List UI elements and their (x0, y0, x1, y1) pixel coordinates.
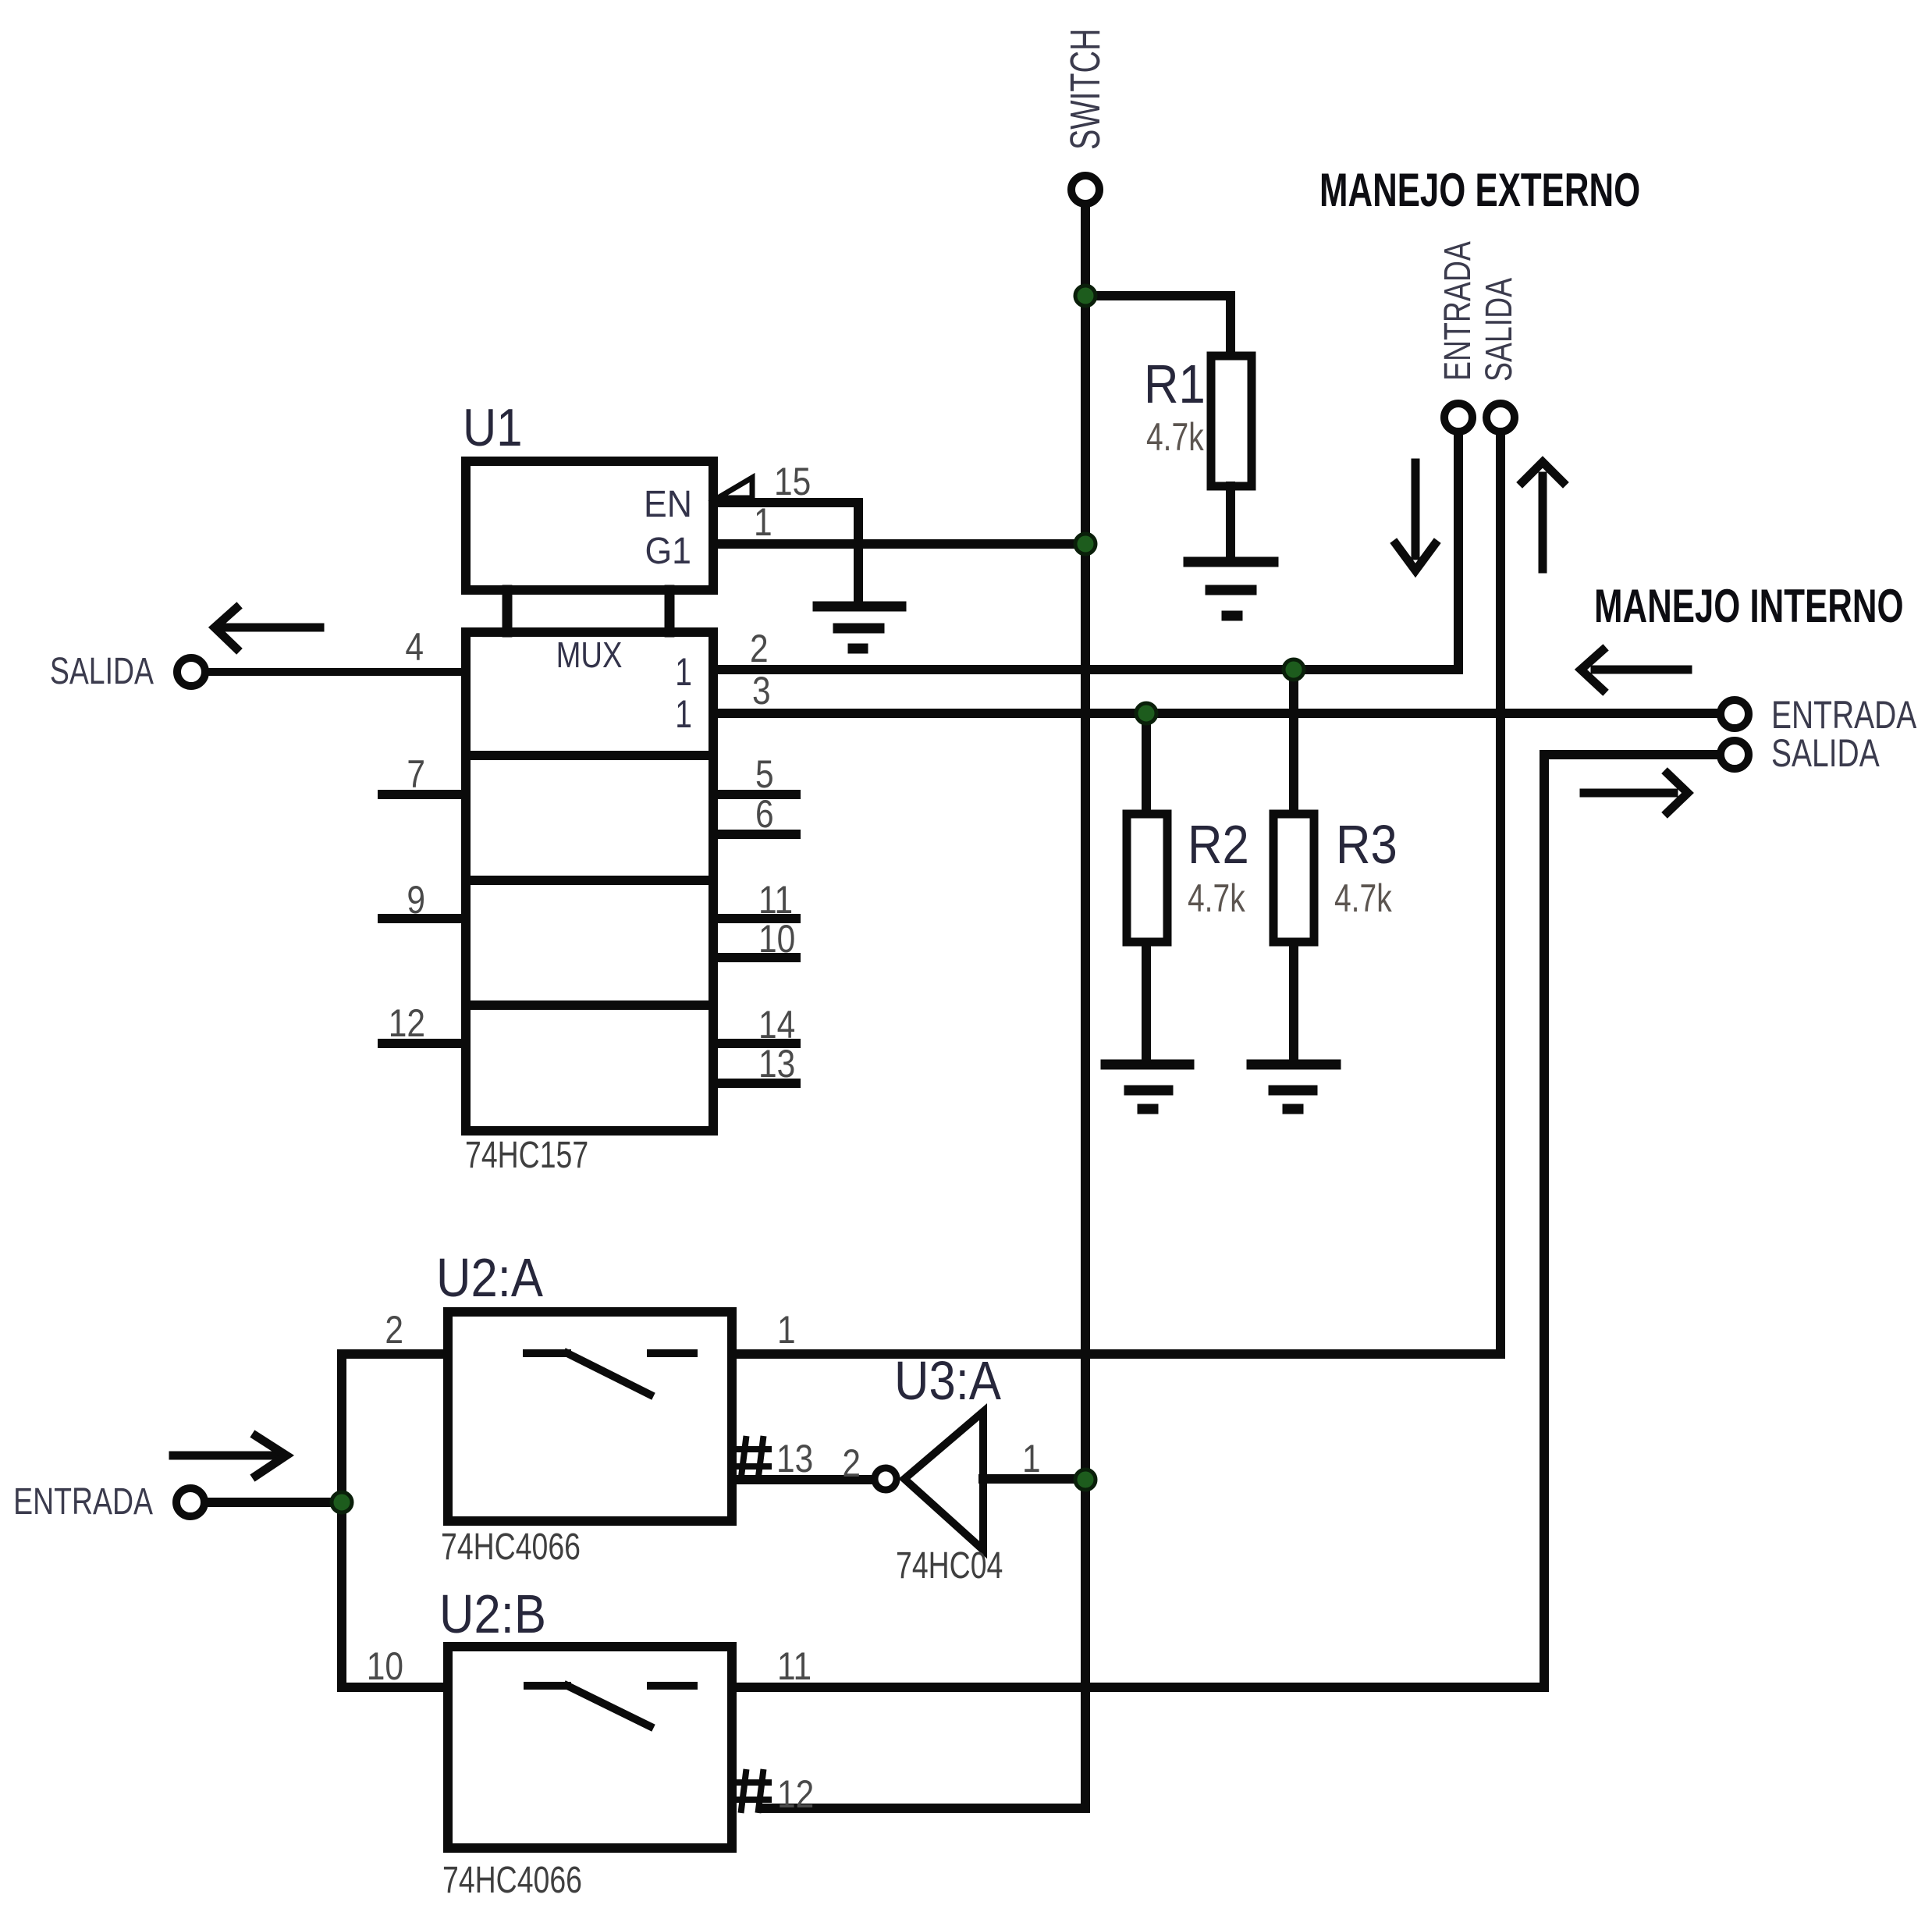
svg-text:4: 4 (405, 625, 424, 669)
U1 tab right (665, 590, 675, 632)
chip U1 EN/G1 control box (466, 461, 713, 590)
ground (EN pin15) (818, 606, 901, 649)
resistor R2 leads (1142, 713, 1151, 818)
svg-text:3: 3 (752, 669, 771, 713)
wire ENTRADA to junction (208, 1498, 342, 1507)
svg-text:U1: U1 (463, 397, 522, 457)
U2:A switch symbol (527, 1353, 694, 1395)
resistor R2 (1127, 814, 1167, 942)
node J4 pin3/R2 (1136, 703, 1156, 723)
U1 divider 2 (466, 876, 713, 885)
svg-text:2: 2 (750, 627, 769, 670)
inverter U3:A triangle (904, 1412, 983, 1550)
switch U2:B box (448, 1647, 732, 1848)
wire R1 bottom lead (1226, 486, 1235, 559)
terminal ENTRADA externo (1444, 403, 1472, 432)
svg-text:R3: R3 (1336, 813, 1398, 875)
arrow MANEJO INTERNO salida (right) (1584, 773, 1688, 812)
resistor R3 (1273, 814, 1314, 942)
svg-text:SWITCH: SWITCH (1062, 29, 1110, 150)
arrow SALIDA left (215, 608, 320, 649)
wire SWITCH vertical net (1081, 206, 1090, 1808)
resistor R1 (1211, 356, 1252, 486)
wire pin10 stub (713, 953, 796, 962)
svg-text:ENTRADA: ENTRADA (1437, 241, 1479, 381)
U1 divider 3 (466, 1000, 713, 1010)
svg-text:5: 5 (755, 752, 774, 796)
node J1 switch/R1 (1075, 286, 1096, 306)
wire junction J1 to R1 top (1085, 296, 1231, 361)
terminal ENTRADA interno (1721, 700, 1749, 728)
arrow ENTRADA bottom (173, 1436, 286, 1476)
svg-text:9: 9 (407, 878, 425, 922)
svg-text:74HC04: 74HC04 (896, 1545, 1003, 1587)
wire pin9 stub (382, 914, 466, 923)
svg-text:1: 1 (675, 691, 692, 736)
svg-text:13: 13 (776, 1437, 813, 1480)
wire pin13 stub (713, 1079, 796, 1088)
svg-text:1: 1 (777, 1308, 796, 1352)
svg-text:1: 1 (1022, 1437, 1041, 1480)
svg-text:U3:A: U3:A (894, 1349, 1001, 1411)
wire U3:A output to U2:A pin13 (732, 1475, 874, 1484)
svg-text:SALIDA: SALIDA (50, 651, 154, 693)
inverter U3:A bubble (875, 1468, 897, 1490)
svg-text:4.7k: 4.7k (1334, 876, 1392, 920)
wire pin5 stub (713, 790, 796, 799)
svg-text:6: 6 (755, 792, 774, 836)
node junction dots (332, 286, 1304, 1512)
wire ENTRADA vertical net (337, 1354, 346, 1687)
ground (R2) (1106, 1064, 1189, 1109)
wire pin2 net to ENTRADA externo (713, 434, 1458, 670)
arrow MANEJO INTERNO entrada (left) (1581, 650, 1688, 690)
node J6 entrada/U2 (332, 1492, 352, 1512)
U1 divider 1 (466, 751, 713, 760)
wire pin12 horizontal from SWITCH line to U2:B (765, 1804, 1085, 1813)
svg-text:1: 1 (754, 500, 772, 544)
svg-text:12: 12 (777, 1772, 814, 1816)
svg-text:MUX: MUX (556, 635, 623, 675)
wire SALIDA interno down to U2:B pin11 (732, 755, 1718, 1687)
svg-text:EN: EN (644, 483, 692, 525)
arrow SALIDA externo (up) (1522, 462, 1563, 569)
svg-text:1: 1 (675, 649, 692, 694)
wire U2:A pin2 (342, 1349, 448, 1359)
digital marker pin12 (733, 1772, 769, 1810)
svg-text:MANEJO EXTERNO: MANEJO EXTERNO (1319, 164, 1640, 216)
node J2 switch/G1 (1075, 534, 1096, 554)
wire pin15 EN to ground (713, 503, 858, 602)
svg-text:15: 15 (774, 460, 811, 503)
wire pin12 stub (382, 1039, 466, 1048)
svg-text:7: 7 (407, 752, 425, 796)
resistor R3 leads (1289, 670, 1298, 818)
wire U2:B pin10 (342, 1683, 448, 1692)
svg-text:ENTRADA: ENTRADA (13, 1481, 153, 1523)
U1 tab left (503, 590, 513, 632)
wire U3:A input to SWITCH net (983, 1474, 1085, 1484)
wire SALIDA externo down to U2:A pin1 (732, 434, 1500, 1354)
U2:B switch symbol (527, 1686, 694, 1726)
pin 15 edge triangle marker (718, 478, 752, 498)
node J3 pin2/R3 (1284, 659, 1304, 680)
svg-text:2: 2 (385, 1308, 403, 1352)
digital marker pin13 (733, 1439, 769, 1477)
wire pin14 stub (713, 1039, 796, 1048)
terminal ENTRADA bottom (176, 1488, 204, 1516)
svg-text:MANEJO INTERNO: MANEJO INTERNO (1594, 580, 1904, 632)
terminal SWITCH (1071, 176, 1099, 204)
node J5 switch/inverter input (1075, 1470, 1096, 1490)
svg-text:SALIDA: SALIDA (1771, 730, 1880, 775)
ground (R1) (1188, 562, 1273, 616)
svg-text:U2:B: U2:B (439, 1583, 546, 1644)
wire pin3 net to ENTRADA interno (713, 709, 1718, 718)
svg-text:4.7k: 4.7k (1188, 876, 1245, 920)
wire pin6 stub (713, 830, 796, 839)
svg-text:SALIDA: SALIDA (1479, 278, 1521, 382)
svg-text:U2:A: U2:A (436, 1246, 543, 1308)
svg-text:R1: R1 (1144, 353, 1206, 414)
wire G1 pin1 to SWITCH net (713, 539, 1085, 549)
svg-text:74HC157: 74HC157 (465, 1135, 588, 1177)
svg-text:11: 11 (777, 1644, 812, 1688)
svg-text:10: 10 (758, 917, 795, 961)
svg-text:R2: R2 (1188, 813, 1249, 875)
svg-text:14: 14 (758, 1003, 795, 1047)
wire pin4 (208, 668, 466, 676)
svg-text:12: 12 (389, 1001, 425, 1045)
terminal SALIDA left (177, 658, 205, 686)
ground (R3) (1252, 1064, 1336, 1109)
svg-text:G1: G1 (645, 530, 691, 572)
svg-text:4.7k: 4.7k (1146, 414, 1204, 459)
wire pin7 stub (382, 790, 466, 799)
svg-text:2: 2 (842, 1441, 861, 1485)
svg-text:74HC4066: 74HC4066 (441, 1526, 581, 1569)
chip U1 MUX box (466, 632, 713, 1131)
svg-text:13: 13 (758, 1042, 795, 1086)
svg-text:10: 10 (367, 1644, 403, 1688)
switch U2:A box (448, 1312, 732, 1521)
terminal SALIDA externo (1486, 403, 1515, 432)
svg-text:74HC4066: 74HC4066 (442, 1860, 582, 1902)
arrow ENTRADA externo (down) (1396, 463, 1435, 570)
wire pin11 stub (713, 914, 796, 923)
svg-text:11: 11 (758, 878, 793, 922)
terminal SALIDA interno (1721, 741, 1749, 769)
